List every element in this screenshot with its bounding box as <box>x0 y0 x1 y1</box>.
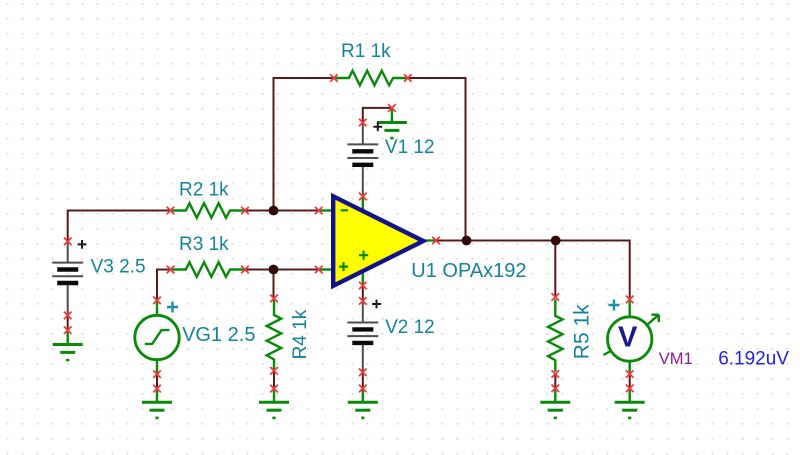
svg-text:V3 2.5: V3 2.5 <box>91 256 146 277</box>
svg-text:VG1 2.5: VG1 2.5 <box>182 324 255 346</box>
svg-text:R5 1k: R5 1k <box>571 304 594 359</box>
svg-text:6.192uV: 6.192uV <box>718 348 789 369</box>
svg-text:V1 12: V1 12 <box>385 137 435 158</box>
svg-text:R1 1k: R1 1k <box>341 41 391 62</box>
svg-text:R4 1k: R4 1k <box>290 309 311 359</box>
svg-text:R2 1k: R2 1k <box>179 179 229 200</box>
svg-text:V2 12: V2 12 <box>385 317 435 338</box>
svg-text:U1 OPAx192: U1 OPAx192 <box>411 260 526 282</box>
svg-text:R3 1k: R3 1k <box>179 234 229 255</box>
svg-text:V: V <box>618 321 638 353</box>
svg-text:VM1: VM1 <box>659 350 693 368</box>
